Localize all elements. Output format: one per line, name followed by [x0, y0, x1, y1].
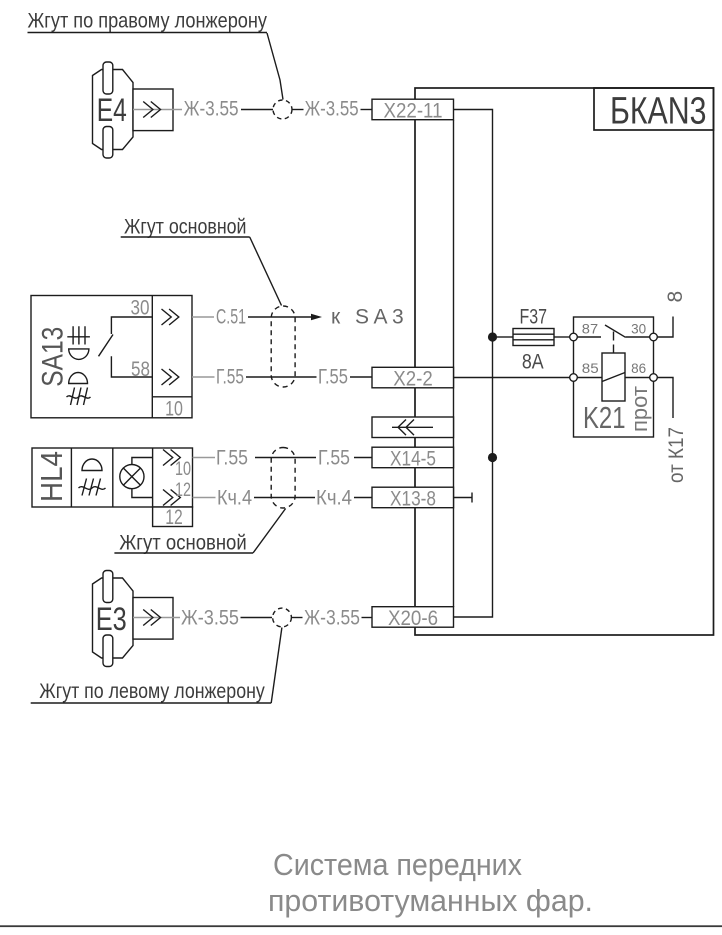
- svg-text:X20-6: X20-6: [388, 607, 438, 630]
- svg-text:Жгут по правому лонжерону: Жгут по правому лонжерону: [28, 10, 268, 33]
- svg-text:8A: 8A: [522, 351, 544, 374]
- splice circle right harness: [273, 100, 292, 119]
- HL4 bulb wires: [132, 458, 153, 498]
- relay pin terminal 85: [570, 374, 578, 382]
- HL4 pin cell extension: [153, 507, 193, 527]
- E4 lens bar top: [103, 62, 113, 94]
- connector X2-2 box: [372, 367, 454, 388]
- svg-text:Г.55: Г.55: [318, 447, 350, 470]
- E3 lens bar bottom: [103, 635, 113, 667]
- fog lamp E3 body: [93, 578, 134, 658]
- junction dot at X14-5 row: [488, 453, 497, 462]
- svg-text:10: 10: [165, 398, 183, 421]
- SA13 icon dome: [69, 372, 88, 383]
- svg-text:Ж-3.55: Ж-3.55: [184, 98, 239, 121]
- connector X14-5 box: [372, 447, 454, 468]
- SA13 contact 30: [111, 317, 152, 334]
- wire SA13 58 gray lead: [192, 376, 215, 378]
- relay coil: [602, 353, 625, 401]
- svg-text:Ж-3.55: Ж-3.55: [181, 607, 239, 630]
- wire C.51 to SA3 arrow: [248, 316, 313, 318]
- svg-text:Жгут по левому лонжерону: Жгут по левому лонжерону: [39, 680, 265, 703]
- arrowhead to SA3: [311, 314, 322, 321]
- wire fuse to relay pin 87: [554, 336, 570, 338]
- svg-text:прот: прот: [627, 386, 652, 432]
- relay pin terminal 30: [650, 333, 658, 341]
- wire top row segment to X22-11: [361, 109, 373, 111]
- svg-text:X22-11: X22-11: [384, 99, 443, 122]
- svg-text:Кч.4: Кч.4: [316, 487, 352, 510]
- svg-text:10: 10: [175, 459, 191, 480]
- harness label underline: [114, 552, 253, 554]
- HL4 fog icon beams: [82, 479, 101, 496]
- svg-text:F37: F37: [520, 306, 548, 329]
- ECU block BKAN3 outline: [415, 88, 714, 635]
- connector X22-11 box: [372, 99, 454, 120]
- wire X2-2 to relay pin 85: [454, 377, 570, 379]
- wire segment Kch.4: [254, 497, 315, 499]
- SA13 icon beams-up: [67, 326, 90, 344]
- leader to splice: [267, 33, 283, 100]
- svg-text:58: 58: [131, 358, 150, 381]
- wire bottom row segment: [292, 617, 303, 619]
- wire top row segment: [241, 109, 273, 111]
- inline arrow box: [372, 417, 454, 438]
- HL4 chevrons row 10: [163, 450, 180, 466]
- SA13 chevrons row 30: [162, 309, 179, 325]
- relay pin terminal 86: [650, 374, 658, 382]
- svg-text:Кч.4: Кч.4: [217, 487, 252, 510]
- wire bottom row segment: [241, 617, 273, 619]
- relay pin terminal 87: [570, 333, 578, 341]
- SA13 icon wavy line: [67, 396, 91, 398]
- relay pin 30 wire: [626, 336, 650, 338]
- svg-text:БКАN3: БКАN3: [610, 91, 707, 133]
- svg-text:Г.55: Г.55: [216, 447, 248, 470]
- svg-text:Г.55: Г.55: [216, 366, 244, 389]
- svg-text:K21: K21: [583, 400, 626, 435]
- svg-text:противотуманных фар.: противотуманных фар.: [268, 883, 593, 918]
- relay contact blade: [605, 325, 626, 337]
- svg-text:86: 86: [631, 360, 646, 376]
- SA13 chevrons row 58: [162, 369, 179, 385]
- harness label underline: [28, 32, 268, 34]
- HL4 chevrons row 12: [163, 490, 180, 506]
- wire relay 30 to node 8: [657, 317, 673, 338]
- wire SA13 30 gray lead: [192, 316, 214, 318]
- wire segment G.55: [246, 376, 317, 378]
- E3 connector chevrons: [143, 610, 160, 626]
- svg-text:30: 30: [131, 297, 150, 320]
- E4 connector chevrons: [143, 102, 160, 118]
- harness label underline: [31, 702, 272, 704]
- wire bus to fuse F37: [497, 336, 513, 338]
- leader to left splice: [271, 628, 282, 704]
- fuse F37 body: [513, 329, 554, 346]
- svg-text:к SA3: к SA3: [331, 306, 408, 329]
- wire top row segment: [292, 109, 304, 111]
- svg-text:85: 85: [582, 360, 599, 376]
- fog lamp E4 body: [93, 70, 134, 150]
- SA13 icon slanted beams: [71, 388, 88, 406]
- E3 lens bar top: [103, 571, 113, 603]
- splice circle left harness: [273, 608, 292, 627]
- svg-text:8: 8: [664, 291, 687, 303]
- HL4 fog icon dome: [82, 459, 102, 471]
- SA13 contact 58: [111, 356, 152, 377]
- relay pin 85 wire: [577, 377, 602, 379]
- wire segment to X2-2: [350, 376, 372, 378]
- leader to upper oval: [250, 237, 282, 306]
- svg-text:от К17: от К17: [665, 427, 688, 483]
- svg-text:12: 12: [175, 480, 191, 501]
- switch SA13 box: [31, 296, 192, 418]
- wire E3 gray lead: [133, 617, 180, 619]
- wire bus X22-11 to X20-6: [454, 110, 493, 618]
- svg-text:E4: E4: [97, 92, 127, 128]
- bottom rule: [0, 925, 722, 927]
- connector stack right edge line: [453, 120, 455, 607]
- relay pin 86 wire: [625, 377, 650, 379]
- HL4 fog icon wavy line: [79, 487, 106, 490]
- svg-text:Ж-3.55: Ж-3.55: [305, 98, 359, 121]
- svg-text:87: 87: [582, 321, 599, 337]
- harness oval upper: [271, 306, 295, 387]
- svg-text:C.51: C.51: [216, 306, 246, 329]
- HL4 cell dividers: [71, 448, 152, 507]
- wire HL4 12 gray lead: [193, 497, 216, 499]
- svg-text:E3: E3: [96, 601, 127, 637]
- svg-text:Жгут основной: Жгут основной: [124, 216, 247, 239]
- wire HL4 10 gray lead: [193, 457, 216, 459]
- wire relay 86 to K17: [657, 378, 673, 419]
- svg-text:X2-2: X2-2: [393, 367, 433, 390]
- svg-text:SA13: SA13: [37, 327, 70, 387]
- leader to lower oval: [253, 509, 286, 554]
- wire segment to X14-5: [354, 457, 372, 459]
- connector X20-6 box: [372, 607, 454, 628]
- SA13 icon bowl: [69, 349, 89, 360]
- svg-text:Ж-3.55: Ж-3.55: [304, 607, 360, 630]
- E4 connector box: [133, 89, 173, 131]
- connector X13-8 box: [372, 487, 454, 508]
- svg-text:X13-8: X13-8: [390, 487, 436, 510]
- svg-text:30: 30: [631, 321, 646, 337]
- junction dot at fuse row: [488, 332, 497, 341]
- lamp HL4 box: [32, 448, 193, 507]
- wire E4 gray lead: [133, 109, 182, 111]
- wire segment to X13-8: [354, 497, 372, 499]
- BKAN3 label box: [594, 88, 714, 130]
- svg-text:12: 12: [165, 506, 183, 529]
- harness oval lower: [271, 448, 295, 509]
- E4 lens bar bottom: [103, 127, 113, 159]
- harness label underline: [121, 236, 250, 238]
- relay actuator link: [613, 332, 615, 353]
- wire segment G.55: [255, 457, 316, 459]
- svg-text:HL4: HL4: [34, 451, 69, 502]
- SA13 connector divider: [152, 296, 192, 418]
- E3 connector box: [133, 598, 173, 640]
- svg-text:Г.55: Г.55: [318, 366, 348, 389]
- svg-text:Система передних: Система передних: [273, 847, 522, 882]
- svg-text:X14-5: X14-5: [390, 447, 436, 470]
- svg-text:Жгут основной: Жгут основной: [119, 532, 247, 555]
- SA13 switch blade: [99, 335, 114, 357]
- relay K21 box: [574, 317, 654, 437]
- wire bottom row segment to X20-6: [362, 617, 373, 619]
- relay pin 87 wire: [577, 336, 601, 338]
- HL4 bulb symbol: [120, 465, 144, 489]
- arrow box chevrons: [392, 420, 433, 436]
- X13-8 stub wire: [454, 493, 473, 503]
